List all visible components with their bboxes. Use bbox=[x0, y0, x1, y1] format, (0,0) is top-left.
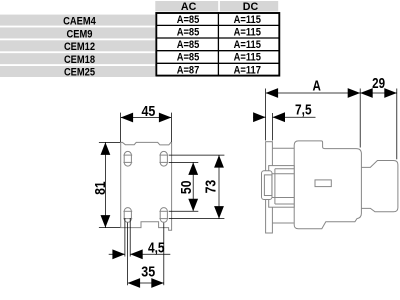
svg-text:35: 35 bbox=[141, 263, 155, 279]
svg-text:CEM25: CEM25 bbox=[64, 67, 95, 79]
svg-text:A=85: A=85 bbox=[177, 52, 200, 64]
svg-text:A=85: A=85 bbox=[177, 27, 200, 39]
svg-text:29: 29 bbox=[372, 75, 385, 92]
svg-text:73: 73 bbox=[203, 180, 219, 194]
svg-text:45: 45 bbox=[141, 103, 155, 119]
svg-text:50: 50 bbox=[178, 181, 194, 195]
svg-text:A=115: A=115 bbox=[234, 14, 262, 26]
svg-text:CEM9: CEM9 bbox=[67, 29, 93, 41]
svg-text:A=115: A=115 bbox=[234, 39, 262, 51]
svg-text:A: A bbox=[313, 77, 322, 94]
svg-text:CEM18: CEM18 bbox=[64, 54, 95, 66]
svg-text:A=85: A=85 bbox=[177, 14, 200, 26]
svg-text:4,5: 4,5 bbox=[148, 239, 165, 255]
svg-text:A=85: A=85 bbox=[177, 39, 200, 51]
svg-text:CAEM4: CAEM4 bbox=[63, 16, 96, 28]
svg-text:CEM12: CEM12 bbox=[64, 41, 95, 53]
svg-text:81: 81 bbox=[92, 181, 108, 195]
svg-text:7,5: 7,5 bbox=[295, 101, 312, 117]
svg-text:AC: AC bbox=[181, 1, 197, 13]
svg-text:DC: DC bbox=[243, 1, 259, 13]
svg-text:A=115: A=115 bbox=[234, 27, 262, 39]
svg-text:A=115: A=115 bbox=[234, 52, 262, 64]
